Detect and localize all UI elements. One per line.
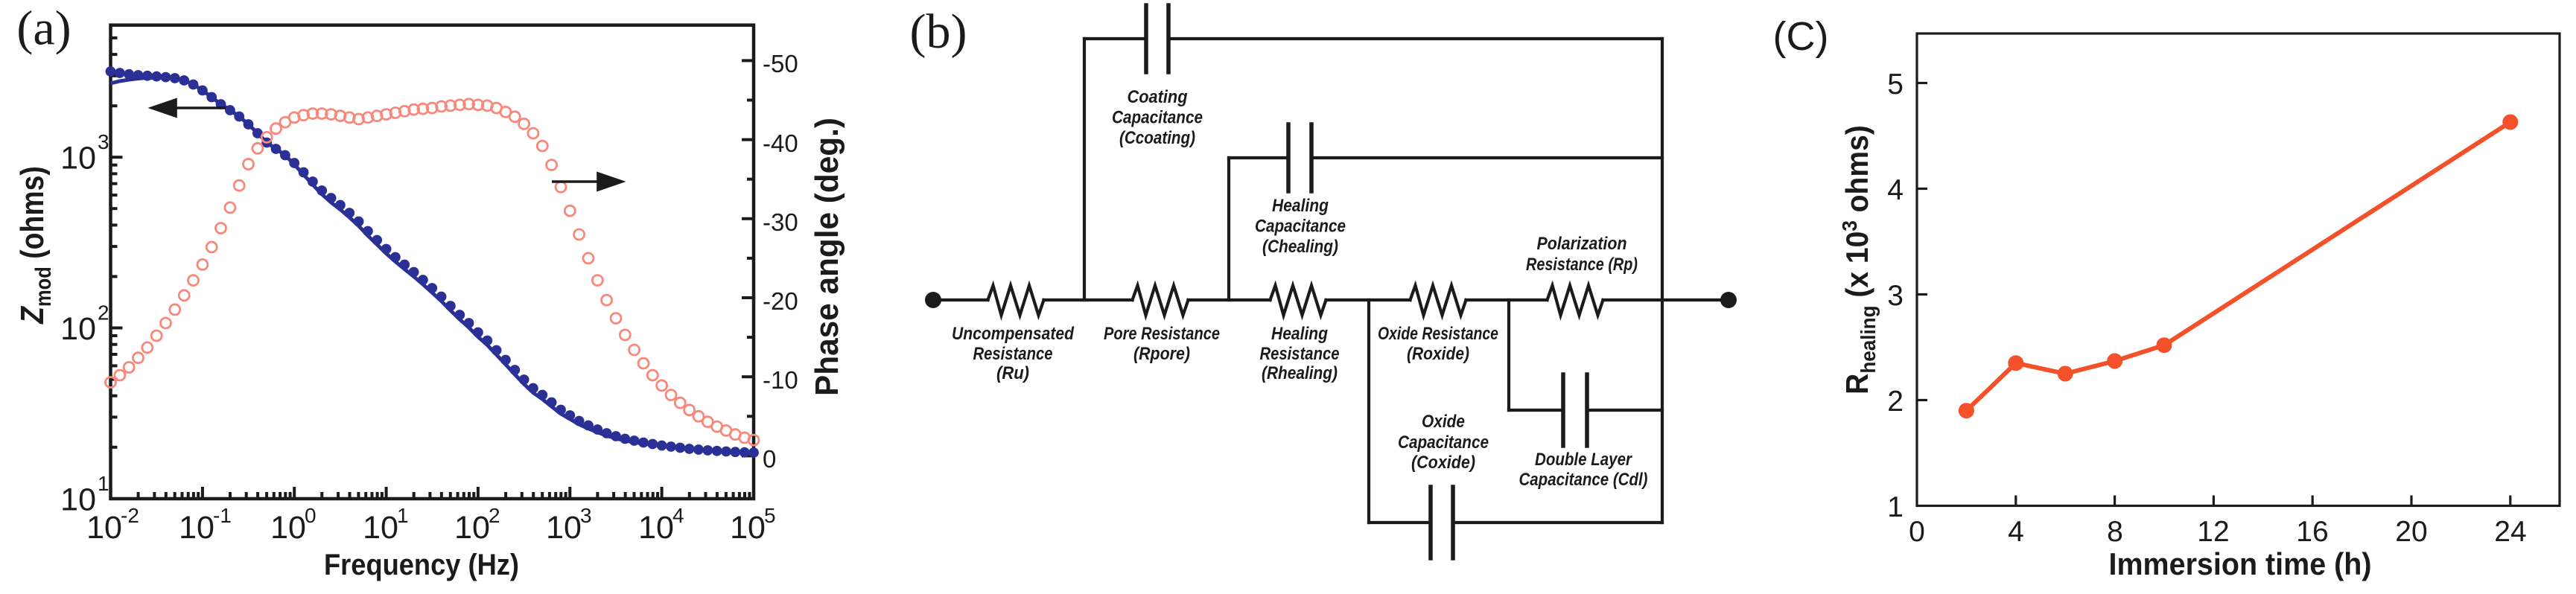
resistor Rpore (Pore Resistance) xyxy=(1133,286,1189,316)
svg-text:10: 10 xyxy=(60,311,96,347)
svg-text:10: 10 xyxy=(60,141,96,176)
label Polarization Resistance (Rp) xyxy=(1526,234,1638,275)
capacitor Cdl (Double Layer Capacitance) plates xyxy=(1561,374,1565,446)
panel c y tick labels xyxy=(1887,68,1904,523)
svg-text:Resistance (Rp): Resistance (Rp) xyxy=(1526,255,1638,275)
capacitor Chealing (Healing Capacitance) plates xyxy=(1286,124,1291,191)
svg-text:20: 20 xyxy=(2395,516,2427,548)
resistor Ru (Uncompensated Resistance) xyxy=(988,286,1044,316)
svg-text:12: 12 xyxy=(2197,516,2229,548)
svg-text:Coating: Coating xyxy=(1128,87,1188,107)
svg-text:(Ccoating): (Ccoating) xyxy=(1119,128,1195,148)
svg-text:Capacitance: Capacitance xyxy=(1398,432,1489,453)
svg-text:-20: -20 xyxy=(763,287,798,315)
svg-text:(Coxide): (Coxide) xyxy=(1411,453,1475,473)
svg-text:0: 0 xyxy=(305,504,317,527)
svg-text:1: 1 xyxy=(98,472,109,495)
panel c x tick labels xyxy=(1909,516,2527,548)
panel a left arrow xyxy=(152,100,226,116)
svg-text:4: 4 xyxy=(672,504,684,527)
svg-text:Double Layer: Double Layer xyxy=(1535,450,1632,470)
wire: dl rail left segment xyxy=(1509,409,1563,412)
wire: Ru to Rpore (node A junction with Ccoating branch) xyxy=(1044,298,1133,301)
wire: Rpore to Rhealing (node B junction with Chealing branch) xyxy=(1189,298,1270,301)
svg-text:4: 4 xyxy=(1887,174,1904,206)
svg-text:(Rhealing): (Rhealing) xyxy=(1262,363,1338,383)
panel a axes frame xyxy=(111,25,754,499)
panel a left tick labels xyxy=(60,130,109,517)
svg-text:24: 24 xyxy=(2494,516,2526,548)
panel a tick marks xyxy=(111,38,754,499)
svg-text:10: 10 xyxy=(270,510,306,546)
svg-text:2: 2 xyxy=(1887,386,1904,418)
panel a right axis title Phase angle (deg.) xyxy=(809,118,845,396)
wire: Coxide branch drop at node C xyxy=(1367,300,1370,523)
right terminal node xyxy=(1720,292,1737,308)
svg-text:Immersion time (h): Immersion time (h) xyxy=(2109,546,2372,581)
panel c y-axis title R healing (x 10^3 ohms) xyxy=(1838,125,1880,395)
svg-text:Pore Resistance: Pore Resistance xyxy=(1104,324,1220,344)
svg-text:Polarization: Polarization xyxy=(1537,234,1627,254)
svg-text:Uncompensated: Uncompensated xyxy=(952,324,1075,344)
svg-text:-1: -1 xyxy=(213,504,232,527)
wire: dl rail right segment to right bus xyxy=(1587,409,1662,412)
wire: bottom rail left segment xyxy=(1369,521,1431,524)
svg-text:(Chealing): (Chealing) xyxy=(1262,237,1338,257)
panel c orange data points xyxy=(1959,115,2518,419)
panel a blue Zmod data points xyxy=(106,66,759,458)
svg-text:0: 0 xyxy=(1909,516,1925,548)
svg-text:2: 2 xyxy=(98,301,109,325)
left terminal node xyxy=(925,292,941,308)
label Coating Capacitance (Ccoating) xyxy=(1112,87,1203,148)
svg-text:8: 8 xyxy=(2107,516,2123,548)
panel a right arrow xyxy=(552,173,622,190)
svg-text:(b): (b) xyxy=(910,4,967,59)
svg-text:-50: -50 xyxy=(763,50,798,77)
panel c orange data line xyxy=(1966,122,2510,411)
wire: healing rail left segment xyxy=(1229,156,1288,159)
wire: bottom rail right segment to right bus xyxy=(1453,521,1662,524)
svg-text:(C): (C) xyxy=(1773,14,1829,59)
svg-text:Frequency (Hz): Frequency (Hz) xyxy=(324,549,519,581)
label Uncompensated Resistance (Ru) xyxy=(952,324,1075,383)
label Pore Resistance (Rpore) xyxy=(1104,324,1220,364)
svg-text:10: 10 xyxy=(363,510,398,546)
panel c axes frame xyxy=(1917,33,2560,506)
wire: healing rail right segment to right bus xyxy=(1311,156,1662,159)
svg-text:Capacitance (Cdl): Capacitance (Cdl) xyxy=(1519,470,1648,490)
svg-text:Capacitance: Capacitance xyxy=(1255,217,1346,237)
resistor Rp (Polarization Resistance) xyxy=(1548,286,1603,316)
svg-text:Resistance: Resistance xyxy=(1260,344,1340,364)
wire: top rail right segment to right bus xyxy=(1168,37,1662,40)
label Healing Resistance (Rhealing) xyxy=(1260,324,1340,383)
svg-text:-30: -30 xyxy=(763,208,798,236)
label Oxide Resistance (Roxide) xyxy=(1378,324,1498,364)
svg-text:10: 10 xyxy=(638,510,674,546)
svg-text:10: 10 xyxy=(730,510,766,546)
svg-text:2: 2 xyxy=(489,504,500,527)
panel c tick marks xyxy=(1917,83,2510,506)
panel a bottom tick labels xyxy=(86,504,776,546)
capacitor Coxide (Oxide Capacitance) plates xyxy=(1428,487,1433,558)
wire: Cdl branch drop at node D xyxy=(1507,300,1510,410)
svg-text:Oxide Resistance: Oxide Resistance xyxy=(1378,324,1498,344)
wire: Rhealing to Roxide (node C junction with Coxide branch) xyxy=(1326,298,1411,301)
svg-text:(Rpore): (Rpore) xyxy=(1133,344,1190,364)
svg-text:10: 10 xyxy=(546,510,582,546)
capacitor Ccoating (Coating Capacitance) plates xyxy=(1144,5,1148,72)
svg-text:(Ru): (Ru) xyxy=(996,363,1029,383)
label Healing Capacitance (Chealing) xyxy=(1255,196,1346,257)
svg-text:1: 1 xyxy=(1887,491,1904,523)
wire: top rail left segment xyxy=(1084,37,1146,40)
svg-text:(a): (a) xyxy=(16,1,71,56)
svg-text:Oxide: Oxide xyxy=(1422,412,1465,432)
svg-text:Healing: Healing xyxy=(1271,324,1328,344)
svg-text:Capacitance: Capacitance xyxy=(1112,108,1203,128)
label Double Layer Capacitance (Cdl) xyxy=(1519,450,1648,490)
resistor Rhealing (Healing Resistance) xyxy=(1270,286,1326,316)
wire: Roxide to Rp (node D junction with Cdl branch) xyxy=(1466,298,1548,301)
svg-text:(Roxide): (Roxide) xyxy=(1407,344,1469,364)
svg-text:3: 3 xyxy=(98,130,109,153)
svg-text:Phase angle (deg.): Phase angle (deg.) xyxy=(809,118,845,396)
wire: right vertical bus xyxy=(1661,39,1664,523)
wire: Ccoating branch riser at node A xyxy=(1083,39,1086,300)
svg-text:1: 1 xyxy=(397,504,409,527)
svg-text:3: 3 xyxy=(1887,280,1904,312)
wire: left terminal to R_u xyxy=(933,298,988,301)
wire: Chealing branch riser at node B xyxy=(1227,158,1230,300)
svg-text:5: 5 xyxy=(764,504,776,527)
svg-text:5: 5 xyxy=(1887,68,1904,100)
svg-text:10: 10 xyxy=(454,510,490,546)
panel a blue fit line (Zmod model) xyxy=(111,77,754,453)
panel a right tick labels xyxy=(763,50,798,473)
svg-text:-10: -10 xyxy=(763,366,798,394)
panel a y-axis title Zmod (ohms) xyxy=(13,166,55,325)
svg-text:10: 10 xyxy=(179,510,214,546)
panel a pink phase angle data points xyxy=(106,99,760,445)
svg-text:10: 10 xyxy=(86,510,122,546)
svg-text:0: 0 xyxy=(763,445,776,473)
label Oxide Capacitance (Coxide) xyxy=(1398,412,1489,473)
svg-text:-40: -40 xyxy=(763,130,798,157)
svg-text:3: 3 xyxy=(580,504,592,527)
wire: Rp to right terminal xyxy=(1603,298,1729,301)
svg-text:Healing: Healing xyxy=(1272,196,1329,216)
resistor Roxide (Oxide Resistance) xyxy=(1411,286,1466,316)
svg-text:16: 16 xyxy=(2296,516,2328,548)
svg-text:-2: -2 xyxy=(121,504,139,527)
svg-text:Resistance: Resistance xyxy=(973,344,1053,364)
svg-text:4: 4 xyxy=(2008,516,2024,548)
